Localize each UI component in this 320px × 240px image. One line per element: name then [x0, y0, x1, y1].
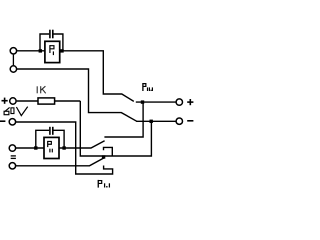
label P1.1: [97, 180, 99, 188]
capacitor C2 plates: [49, 127, 51, 135]
terminal A2: [10, 66, 16, 72]
relay coil P1 box: [45, 41, 60, 62]
wire A1 to coil P1: [17, 50, 45, 52]
wire link A1-A2: [12, 55, 14, 66]
wire B1 to resistor: [17, 100, 38, 102]
node junction right of P1: [60, 49, 63, 52]
wire capacitor 2 right leg: [54, 130, 65, 148]
terminal B2: [9, 119, 15, 125]
wire B2 down to hook of contact P1.1b: [16, 122, 113, 174]
label P1: [49, 45, 51, 53]
terminal C1: [9, 145, 15, 151]
wire P11 to contact P1.1a blade: [59, 141, 105, 148]
wire C2 to contact P1.1b blade: [16, 158, 104, 166]
minus sign output: [187, 120, 193, 122]
wire C1 to coil P11: [16, 147, 44, 149]
wire P1 to contact P11.1a blade: [60, 51, 134, 102]
wire plus rail: [136, 101, 176, 103]
wire A2 to contact P11.1b blade: [17, 69, 137, 121]
equals mark between C1 C2: [11, 155, 16, 157]
label P11: [47, 141, 49, 147]
wire capacitor left leg: [40, 34, 49, 51]
terminal C2: [9, 163, 15, 169]
wire capacitor right leg: [54, 34, 63, 51]
wire minus rail: [136, 120, 176, 122]
wire resistor to vertical: [55, 100, 81, 102]
hook of contact P1.1a: [104, 147, 113, 156]
capacitor C1 plates: [49, 30, 51, 39]
node plus: [141, 100, 144, 103]
relay coil P11 box: [44, 137, 59, 158]
wire plus node down to fixed contact rail: [104, 102, 143, 137]
resistor R1 1K: [38, 98, 55, 104]
minus sign battery: [0, 120, 5, 122]
label P11.1: [142, 83, 144, 91]
wire capacitor 2 left leg: [36, 130, 49, 148]
wire minus node down to bottom rail and 1K vertical: [80, 101, 151, 156]
label 1K: [37, 86, 46, 93]
node minus: [150, 120, 153, 123]
terminal A1: [10, 48, 16, 54]
node junction left of P11: [34, 146, 37, 149]
plus sign battery: [2, 100, 8, 102]
terminal B1: [10, 98, 16, 104]
plus sign output: [187, 101, 193, 103]
node junction left of P1: [39, 49, 42, 52]
node on bottom rail: [102, 155, 105, 158]
label 60V: [5, 107, 9, 111]
terminal minus: [176, 118, 182, 124]
node junction right of P11: [62, 146, 65, 149]
terminal plus: [176, 99, 182, 105]
